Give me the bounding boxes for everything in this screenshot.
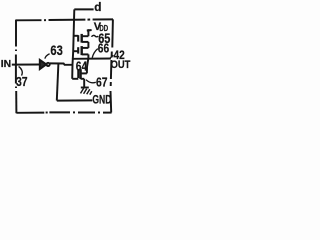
transistor Q67 gate bar	[77, 70, 79, 78]
transistor Q66 gate bar	[77, 47, 79, 53]
wire: bottom horizontal run to GND	[57, 99, 93, 101]
transistor Q65 drain lead (top)	[82, 35, 89, 37]
leader tilde for label 65	[92, 35, 99, 36]
leader line for label 66	[92, 49, 98, 58]
wire: rail from output node down to Q67 drain	[87, 59, 88, 74]
leader line for label 42	[110, 55, 114, 58]
svg-text:GND: GND	[92, 93, 111, 107]
wire: Q67 source to ground	[83, 79, 85, 88]
transistor Q65 gate bar	[77, 35, 79, 41]
wire: VDD feed to pad d (top)	[74, 8, 93, 10]
wire: rail from Q66 down to output node	[87, 54, 89, 58]
wire: IN input horizontal	[12, 64, 40, 66]
svg-text:63: 63	[50, 43, 63, 58]
svg-text:OUT: OUT	[111, 59, 131, 71]
wire: VDD stub	[87, 29, 89, 36]
transistor Q67 gate lead (from rail)	[72, 78, 78, 80]
leader line for label 67	[86, 80, 96, 83]
junction: branch node on inverter output	[57, 63, 59, 65]
wire: VDD stub tick	[87, 29, 92, 32]
wire: inverter output to gate rail	[50, 63, 73, 64]
transistor Q67 channel bar	[79, 69, 81, 79]
junction: gate rail / output-node wire	[72, 58, 74, 60]
transistor Q65 gate lead	[74, 35, 79, 37]
wire: branch down from inverter output	[57, 64, 59, 101]
svg-text:d: d	[94, 0, 101, 14]
chip boundary box: left edge (dash-dot)	[15, 20, 18, 113]
svg-text:67: 67	[96, 76, 108, 90]
ground symbol hatches	[81, 88, 84, 93]
transistor Q66 channel bar	[80, 46, 82, 55]
chip boundary box: bottom edge (dash-dot)	[16, 111, 111, 113]
svg-text:64: 64	[76, 59, 87, 73]
transistor Q66 gate lead	[73, 50, 78, 52]
svg-text:66: 66	[98, 41, 109, 55]
chip boundary box: top edge (dash-dot)	[16, 18, 114, 21]
transistor Q67 drain lead (top)	[81, 72, 87, 74]
junction: drain rail / output-node wire	[87, 58, 89, 60]
transistor Q65 channel bar	[80, 34, 82, 43]
transistor Q66 source lead (bottom)	[82, 53, 89, 55]
wire: gate rail vertical (from d-wire corner down to gate of 67)	[72, 9, 74, 78]
leader line for label 63	[45, 54, 50, 59]
transistor Q67 source lead (bottom)	[81, 78, 85, 80]
inverter U63 triangle	[40, 60, 47, 69]
transistor Q66 drain lead (top)	[82, 47, 89, 49]
wire: output node 42 horizontal to OUT	[73, 58, 111, 60]
ground symbol bar	[81, 87, 89, 89]
leader line for label 37	[19, 66, 23, 75]
transistor Q65 source lead (bottom)	[82, 41, 89, 43]
svg-text:IN: IN	[1, 59, 11, 70]
chip boundary box: right edge (dash-dot)	[111, 19, 113, 112]
inverter U63 bubble	[47, 63, 50, 66]
svg-text:37: 37	[16, 74, 28, 89]
wire: rail between Q65 and Q66	[87, 42, 89, 48]
